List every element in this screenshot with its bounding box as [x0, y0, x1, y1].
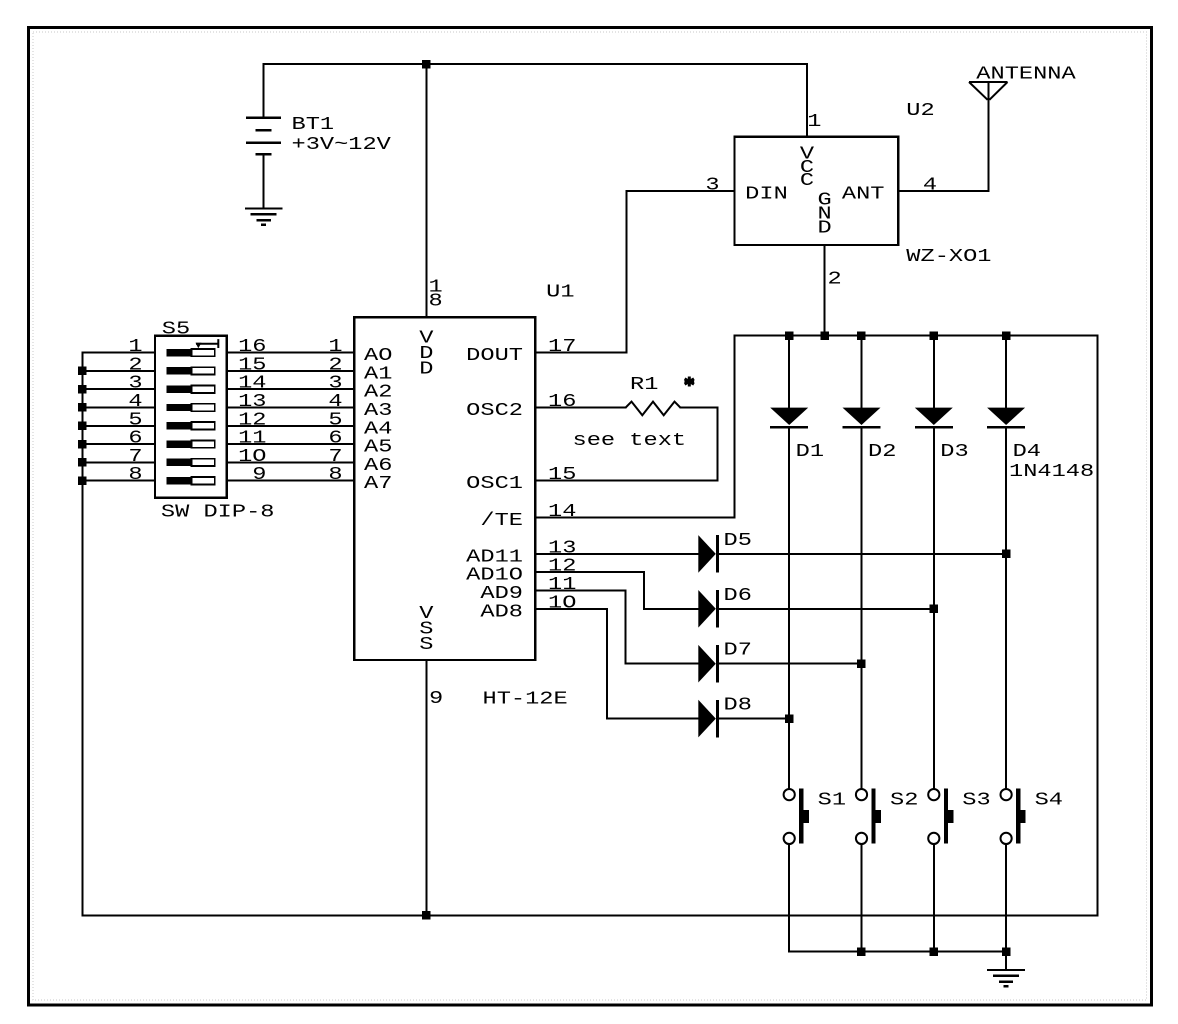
svg-text:1: 1 [128, 337, 142, 357]
diode D8 [698, 700, 716, 738]
wire AD10 to D6 [643, 608, 699, 610]
svg-text:DIN: DIN [745, 185, 788, 205]
svg-text:5: 5 [328, 410, 342, 430]
junction dot left bus row 5 [78, 422, 87, 431]
wire D3 column upper [933, 335, 935, 409]
wire R1 loop vertical [716, 407, 718, 482]
wire S5 pin 10 to U1 pin 7 [226, 461, 356, 463]
svg-text:A1: A1 [364, 364, 392, 384]
svg-text:+3V~12V: +3V~12V [292, 135, 392, 155]
switch S4 actuator bar [1016, 789, 1020, 844]
svg-text:13: 13 [238, 392, 266, 412]
svg-text:2: 2 [328, 355, 342, 375]
svg-text:/TE: /TE [480, 511, 523, 531]
svg-text:DOUT: DOUT [466, 346, 523, 366]
wire S5 pin 11 to U1 pin 6 [226, 443, 356, 445]
switch S5 slider 7 filled [167, 459, 192, 466]
battery BT1 plate long [246, 142, 281, 145]
svg-text:7: 7 [328, 447, 342, 467]
svg-text:1: 1 [328, 337, 342, 357]
op-amp U1 body (HT-12E encoder) [354, 317, 535, 660]
svg-text:14: 14 [238, 374, 266, 394]
svg-text:D5: D5 [724, 531, 752, 551]
wire S5 pin 9 to U1 pin 8 [226, 480, 356, 482]
svg-text:ANT: ANT [842, 185, 885, 205]
svg-text:A4: A4 [364, 419, 392, 439]
switch S5 slider 8 open [192, 477, 215, 484]
switch S1 actuator nub [803, 810, 808, 823]
svg-text:AD11: AD11 [466, 547, 523, 567]
wire S1 lower lead [788, 843, 790, 953]
junction dot left bus row 4 [78, 403, 87, 412]
junction dot bus D3 column [930, 331, 939, 340]
junction dot left bus row 3 [78, 385, 87, 394]
wire DIN lead [626, 190, 736, 192]
wire bottom return [82, 915, 1099, 917]
wire AD11 to D5 [534, 553, 699, 555]
battery BT1 plate short [256, 129, 272, 132]
wire AD9 horizontal [534, 590, 626, 592]
switch S3 top terminal [928, 789, 939, 800]
diode D2 [843, 408, 881, 425]
svg-text:2: 2 [828, 270, 842, 290]
ground below BT1 [245, 207, 283, 209]
svg-text:ANTENNA: ANTENNA [976, 64, 1076, 84]
switch S5 slider 1 open [192, 349, 215, 356]
switch S4 top terminal [1001, 789, 1012, 800]
wire D4 column upper [1005, 335, 1007, 409]
antenna mast [988, 81, 990, 192]
wire U2 pin 2 GND lead [824, 244, 826, 337]
svg-text:D2: D2 [868, 442, 896, 462]
ground bottom right [987, 969, 1025, 971]
diode D3 [915, 408, 953, 425]
wire D3 column lower [933, 428, 935, 790]
svg-text:12: 12 [548, 557, 576, 577]
wire AD8 horizontal [534, 608, 608, 610]
wire S5 pin 16 to U1 pin 1 [226, 352, 356, 354]
switch S5 slider 8 filled [167, 477, 192, 484]
antenna symbol [969, 82, 1008, 100]
svg-text:U1: U1 [546, 283, 574, 303]
wire S5 pin 15 to U1 pin 2 [226, 370, 356, 372]
resistor R1 [626, 402, 681, 416]
svg-text:D6: D6 [724, 586, 752, 606]
wire S5 pin 1 lead [82, 352, 157, 354]
switch S5 slider 4 open [192, 404, 215, 411]
switch S5 slider 2 filled [167, 367, 192, 374]
svg-text:D: D [419, 360, 433, 380]
svg-text:WZ-XO1: WZ-XO1 [906, 247, 991, 267]
wire D4 column lower [1005, 428, 1007, 790]
wire D6 cathode to D3 column [718, 608, 935, 610]
svg-text:7: 7 [128, 447, 142, 467]
junction dot top rail / U1 VDD [422, 60, 431, 69]
switch S3 actuator nub [948, 810, 953, 823]
wire S5 pin 4 lead [82, 407, 157, 409]
svg-text:S1: S1 [818, 791, 846, 811]
wire battery negative lead [263, 155, 265, 210]
svg-text:9: 9 [252, 465, 266, 485]
svg-text:A7: A7 [364, 474, 392, 494]
switch S5 slider 6 filled [167, 440, 192, 447]
wire common bus to ground [1005, 951, 1007, 971]
svg-text:see text: see text [573, 431, 687, 451]
wire S5 pin 14 to U1 pin 3 [226, 388, 356, 390]
svg-text:1O: 1O [548, 593, 576, 613]
svg-text:15: 15 [238, 355, 266, 375]
wire diode bus top [734, 335, 1099, 337]
svg-text:A6: A6 [364, 456, 392, 476]
switch S4 bottom terminal [1001, 833, 1012, 844]
svg-text:8: 8 [128, 465, 142, 485]
switch S5 slider 6 open [192, 440, 215, 447]
junction dot bus D1 column [785, 331, 794, 340]
junction dot left bus row 8 [78, 477, 87, 486]
svg-text:11: 11 [548, 575, 576, 595]
junction dot D7/D2 column [857, 660, 866, 669]
wire OSC1 pin 15 [534, 480, 718, 482]
wire AD10 riser [643, 571, 645, 610]
wire AD8 riser [606, 608, 608, 720]
switch S4 actuator nub [1020, 810, 1025, 823]
wire VDD top rail [263, 63, 808, 65]
wire AD9 riser [625, 590, 627, 665]
svg-text:14: 14 [548, 502, 576, 522]
wire D5 cathode to D4 column [718, 553, 1007, 555]
junction dot VSS to bottom wire [422, 911, 431, 920]
svg-text:U2: U2 [906, 101, 934, 121]
svg-text:BT1: BT1 [292, 115, 335, 135]
svg-text:1N4148: 1N4148 [1009, 462, 1094, 482]
svg-text:AD9: AD9 [480, 584, 523, 604]
switch S5 slider 5 filled [167, 422, 192, 429]
svg-text:D1: D1 [796, 442, 824, 462]
switch S5 slider 2 open [192, 367, 215, 374]
wire D1 column lower [788, 428, 790, 790]
wire S5 pin 5 lead [82, 425, 157, 427]
wire /TE riser to diode bus [734, 335, 736, 519]
svg-text:9: 9 [429, 689, 443, 709]
svg-text:AD8: AD8 [480, 602, 523, 622]
IC U2 body (WZ-X01 transmitter) [735, 137, 899, 245]
wire OSC2 to R1 [534, 407, 626, 409]
wire D2 column lower [861, 428, 863, 790]
svg-text:3: 3 [705, 176, 719, 196]
switch S5 slider 7 open [192, 459, 215, 466]
svg-text:D8: D8 [724, 696, 752, 716]
svg-text:AD1O: AD1O [466, 566, 523, 586]
svg-text:S3: S3 [962, 791, 990, 811]
junction dot left bus row 2 [78, 367, 87, 376]
wire S5 pin 13 to U1 pin 4 [226, 407, 356, 409]
wire U1 pin 18 VDD lead [425, 63, 427, 318]
svg-text:1O: 1O [238, 447, 266, 467]
wire U1 pin 9 VSS lead [425, 659, 427, 917]
svg-text:D4: D4 [1013, 442, 1041, 462]
svg-text:16: 16 [548, 392, 576, 412]
wire S5 pin 12 to U1 pin 5 [226, 425, 356, 427]
switch S1 bottom terminal [784, 833, 795, 844]
switch S5 slider 3 open [192, 386, 215, 393]
switch S3 bottom terminal [928, 833, 939, 844]
wire S5 pin 7 lead [82, 461, 157, 463]
junction dot S2 common [857, 947, 866, 956]
label * (asterisk) [685, 377, 695, 387]
switch S5 slider 3 filled [167, 386, 192, 393]
battery BT1 plate long top [246, 117, 281, 120]
wire S4 lower lead [1005, 843, 1007, 953]
switch S2 top terminal [856, 789, 867, 800]
svg-text:OSC2: OSC2 [466, 401, 523, 421]
svg-text:A5: A5 [364, 438, 392, 458]
svg-text:3: 3 [328, 374, 342, 394]
svg-text:5: 5 [128, 410, 142, 430]
junction dot bus D2 column [857, 331, 866, 340]
junction dot left bus row 7 [78, 458, 87, 467]
svg-text:2: 2 [128, 355, 142, 375]
battery BT1 plate short bottom [256, 153, 272, 156]
wire battery positive lead [263, 63, 265, 119]
wire S2 lower lead [861, 843, 863, 953]
wire S5 pin 6 lead [82, 443, 157, 445]
wire S5 pin 3 lead [82, 388, 157, 390]
wire D2 column upper [861, 335, 863, 409]
svg-text:HT-12E: HT-12E [483, 690, 568, 710]
wire DOUT pin 17 [534, 352, 627, 354]
svg-text:6: 6 [328, 429, 342, 449]
junction dot S3 common [930, 947, 939, 956]
svg-text:8: 8 [328, 465, 342, 485]
svg-text:16: 16 [238, 337, 266, 357]
wire switch common bus [788, 951, 1007, 953]
switch S5 slider 5 open [192, 422, 215, 429]
svg-text:4: 4 [128, 392, 142, 412]
wire DOUT riser to DIN [626, 190, 628, 354]
switch S2 actuator bar [872, 789, 876, 844]
switch S1 top terminal [784, 789, 795, 800]
svg-text:S: S [419, 635, 433, 655]
wire D7 cathode to D2 column [718, 663, 863, 665]
wire S5 pin 2 lead [82, 370, 157, 372]
wire S3 lower lead [933, 843, 935, 953]
diode D7 [698, 645, 716, 683]
wire AD8 to D8 [606, 718, 699, 720]
junction dot D5/D4 column [1002, 550, 1011, 559]
svg-text:15: 15 [548, 465, 576, 485]
svg-text:OSC1: OSC1 [466, 474, 523, 494]
junction dot left bus row 6 [78, 440, 87, 449]
wire left address bus vertical [82, 352, 84, 917]
svg-text:AO: AO [364, 346, 392, 366]
switch S3 actuator bar [944, 789, 948, 844]
svg-text:S2: S2 [890, 791, 918, 811]
junction dot D6/D3 column [930, 605, 939, 614]
svg-text:4: 4 [923, 176, 937, 196]
diode D5 [698, 535, 716, 573]
wire U2 pin 1 VCC lead [806, 63, 808, 138]
diode D4 [987, 408, 1025, 425]
junction dot GND lead / diode bus [820, 331, 829, 340]
wire AD10 horizontal [534, 571, 645, 573]
svg-text:4: 4 [328, 392, 342, 412]
svg-text:13: 13 [548, 538, 576, 558]
svg-text:6: 6 [128, 429, 142, 449]
svg-text:A2: A2 [364, 383, 392, 403]
switch S5 orientation mark (rotated 1) [196, 339, 218, 348]
wire R1 to corner [679, 407, 718, 409]
wire D8 cathode to D1 column [718, 718, 790, 720]
switch S5 slider 1 filled [167, 349, 192, 356]
svg-text:17: 17 [548, 337, 576, 357]
svg-text:SW DIP-8: SW DIP-8 [161, 503, 275, 523]
svg-text:R1: R1 [630, 375, 658, 395]
svg-text:D: D [818, 219, 832, 239]
svg-text:12: 12 [238, 410, 266, 430]
switch S1 actuator bar [799, 789, 803, 844]
svg-text:11: 11 [238, 429, 266, 449]
wire ANT pin 4 lead [897, 190, 989, 192]
junction dot D8/D1 column [785, 714, 794, 723]
svg-text:A3: A3 [364, 401, 392, 421]
wire D1 column upper [788, 335, 790, 409]
switch S5 slider 4 filled [167, 404, 192, 411]
junction dot S4 common [1002, 947, 1011, 956]
diode D6 [698, 590, 716, 628]
svg-text:C: C [800, 171, 814, 191]
diode D1 [770, 408, 808, 425]
svg-text:3: 3 [128, 374, 142, 394]
wire right drop from diode bus [1097, 335, 1099, 917]
svg-text:D3: D3 [940, 442, 968, 462]
svg-text:D7: D7 [724, 641, 752, 661]
wire S5 pin 8 lead [82, 480, 157, 482]
switch S2 actuator nub [876, 810, 881, 823]
svg-text:8: 8 [429, 292, 443, 312]
svg-text:S4: S4 [1035, 791, 1063, 811]
switch S2 bottom terminal [856, 833, 867, 844]
switch S5 body [155, 336, 227, 498]
wire /TE pin 14 [534, 516, 735, 518]
svg-text:1: 1 [807, 112, 821, 132]
junction dot bus D4 column [1002, 331, 1011, 340]
wire AD9 to D7 [625, 663, 700, 665]
